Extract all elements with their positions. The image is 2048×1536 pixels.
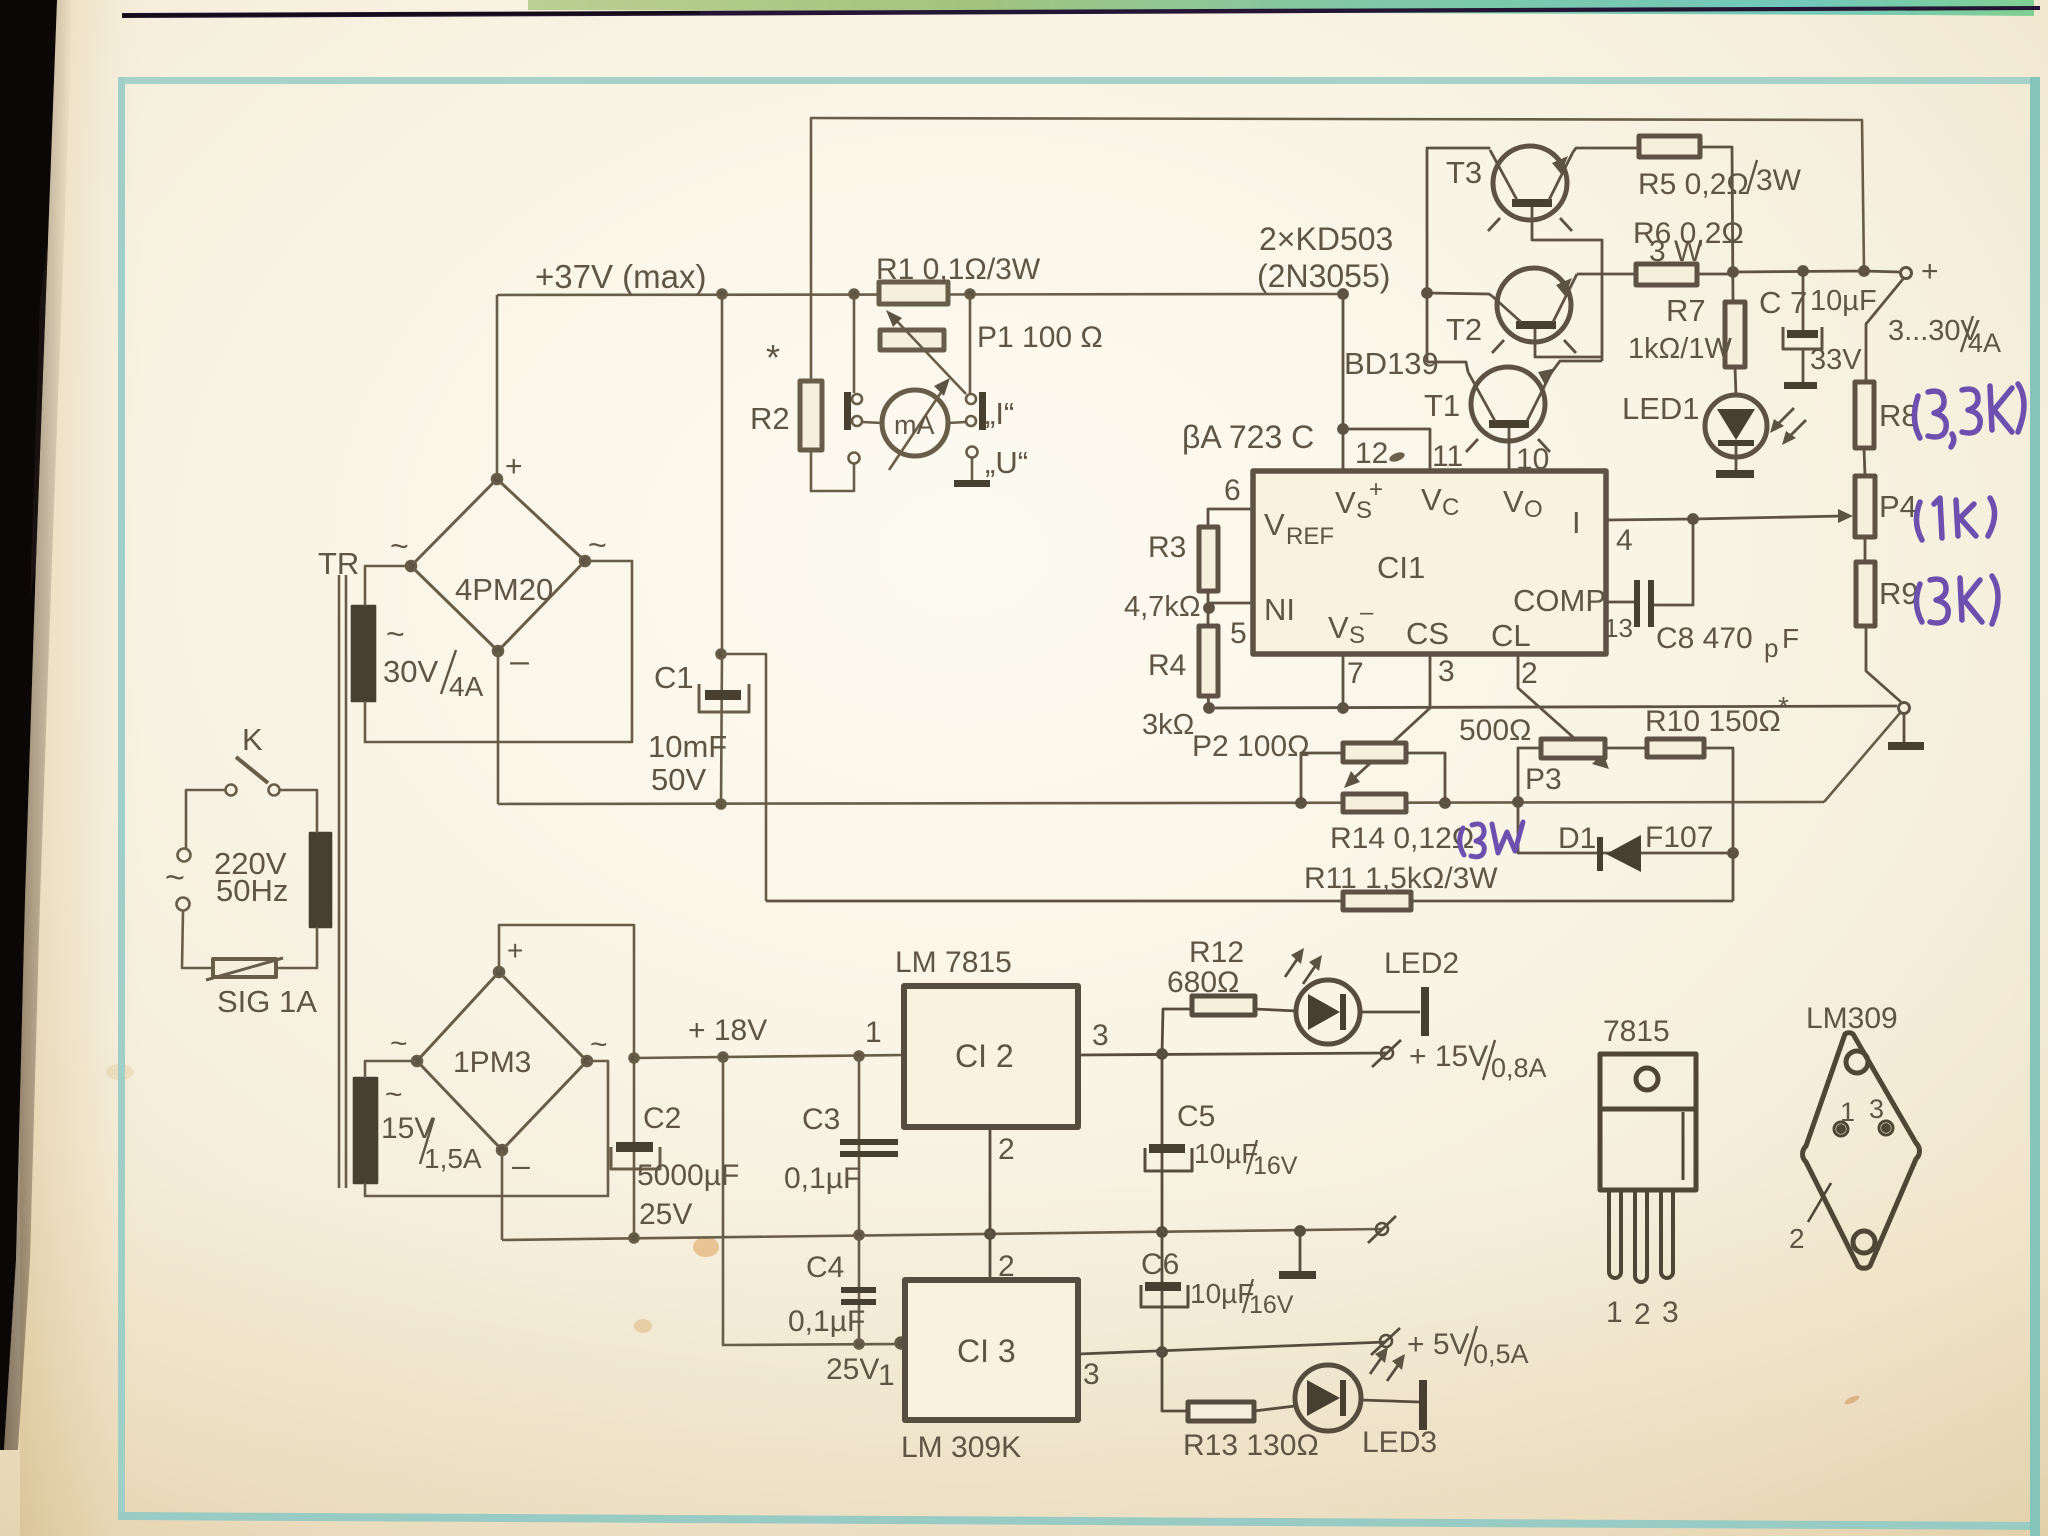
svg-text:P3: P3 (1525, 763, 1562, 796)
wire T3 base (1532, 207, 1602, 361)
svg-text:33V: 33V (1810, 344, 1862, 376)
svg-text:4,7kΩ: 4,7kΩ (1124, 591, 1201, 623)
ground bar output (1888, 742, 1924, 750)
capacitor C6 (1141, 1282, 1188, 1307)
capacitor C7 (1783, 271, 1822, 389)
wire D1 branch (1518, 802, 1733, 853)
svg-text:*: * (1778, 691, 1789, 722)
wire 0V mid rail (502, 1229, 1382, 1240)
wire R12 to LED2 (1255, 1009, 1297, 1011)
svg-text:R14 0,12Ω: R14 0,12Ω (1330, 822, 1474, 855)
wire top box rail (output+ return) (810, 118, 1864, 271)
wire R2 bottom to meter contact (811, 450, 854, 491)
node C1 top (718, 290, 727, 299)
wire lower terminal to fuse (182, 911, 211, 968)
svg-text:F107: F107 (1645, 821, 1713, 854)
transistor T1 (1466, 367, 1556, 452)
mains terminal lower (177, 898, 190, 911)
resistor R4 (1199, 626, 1218, 696)
svg-text:6: 6 (1224, 474, 1241, 507)
contact circle bottom-left U pole (849, 453, 860, 464)
svg-text:2: 2 (1634, 1298, 1651, 1331)
node mid rail bar stub (1296, 1227, 1305, 1236)
node R4 sense rail (1205, 704, 1214, 713)
LED3 (1295, 1365, 1361, 1431)
wire LED3 to bar (1361, 1400, 1419, 1402)
potentiometer P3 (1541, 739, 1605, 758)
wire CI3 output rail (1078, 1342, 1386, 1354)
wire bridge minus down to 0V rail (497, 651, 500, 804)
wire R7 to LED1 (1735, 367, 1736, 396)
capacitor C8 (1634, 580, 1654, 627)
resistor R10 (1647, 739, 1704, 757)
resistor R6 (1636, 264, 1697, 285)
wire pin6 VREF (1208, 509, 1253, 527)
resistor R9 (1856, 562, 1875, 626)
svg-text:3: 3 (1662, 1296, 1679, 1329)
LED1 (1705, 395, 1767, 457)
svg-text:K: K (242, 722, 263, 757)
wire R9 to output minus (1866, 626, 1901, 702)
transformer TR core (339, 575, 346, 1188)
LED3 emission arrows (1370, 1347, 1405, 1381)
transformer secondary winding 30V/4A (352, 606, 375, 701)
svg-text:V: V (1264, 507, 1285, 542)
svg-text:R3: R3 (1148, 531, 1186, 564)
wire bridge left to secondary (365, 566, 411, 606)
svg-text:25V: 25V (826, 1353, 879, 1386)
wire T2 collector (1427, 293, 1492, 296)
package LM309 TO-3 (1803, 1033, 1920, 1269)
wire 0V rail rise to output minus (1824, 713, 1900, 802)
svg-text:R11 1,5kΩ/3W: R11 1,5kΩ/3W (1304, 862, 1498, 895)
wire main 0V rail (498, 802, 1824, 804)
svg-text:~: ~ (590, 1028, 608, 1061)
svg-text:LED3: LED3 (1362, 1426, 1437, 1459)
wire C5 drop (1161, 1054, 1164, 1232)
wire R12 branch (1162, 1009, 1192, 1054)
node +5V C6 R13 (1158, 1348, 1167, 1357)
svg-text:CI 2: CI 2 (955, 1038, 1014, 1074)
wire R8 to P4 (1864, 448, 1865, 476)
svg-text:mA: mA (894, 410, 935, 440)
potentiometer P2 (1343, 743, 1406, 762)
svg-text:R7: R7 (1666, 293, 1706, 328)
P3 wiper arrowhead (1592, 753, 1609, 769)
resistor R7 (1725, 302, 1745, 367)
svg-text:+ 5V: + 5V (1407, 1328, 1470, 1361)
svg-text:+: + (1921, 255, 1939, 288)
wire P3 to R10 (1605, 747, 1647, 750)
wire 1PM3 left to winding (365, 1061, 417, 1078)
wire C6 drop (1161, 1232, 1164, 1352)
svg-text:13: 13 (1604, 613, 1633, 643)
wire R10 right leg (1704, 748, 1733, 901)
LED2 emission arrows (1285, 948, 1322, 984)
node pin4 C8 (1689, 515, 1698, 524)
wire T1 base to pin10 (1508, 428, 1511, 471)
resistor R14 (1343, 794, 1406, 812)
svg-text:SIG 1A: SIG 1A (217, 984, 317, 1019)
node C1 bottom on 0V rail (717, 800, 726, 809)
wire T3 collector (1427, 148, 1490, 362)
svg-text:βA 723 C: βA 723 C (1182, 419, 1314, 455)
resistor R1 (879, 282, 948, 304)
resistor R8 (1855, 382, 1874, 448)
svg-text:LM 309K: LM 309K (901, 1431, 1021, 1464)
svg-text:+: + (1369, 476, 1383, 503)
wire pin13 COMP to C8 (1606, 601, 1634, 604)
svg-text:0,8A: 0,8A (1491, 1053, 1547, 1083)
meter mA (882, 378, 950, 470)
svg-text:P1 100 Ω: P1 100 Ω (977, 321, 1103, 354)
resistor R11 (1343, 892, 1411, 910)
wire R3-R4 (1207, 591, 1210, 626)
wire C1 branch down (721, 294, 722, 804)
svg-text:R12: R12 (1189, 936, 1244, 969)
svg-text:T3: T3 (1446, 155, 1482, 190)
handwritten 3W over R14 (1460, 822, 1523, 857)
svg-text:CL: CL (1491, 618, 1531, 653)
svg-text:+: + (507, 935, 523, 966)
svg-text:16V: 16V (1253, 1152, 1298, 1180)
svg-text:P2 100Ω: P2 100Ω (1192, 730, 1310, 763)
svg-text:LM309: LM309 (1806, 1002, 1898, 1035)
wire CI2 pin2 down (989, 1127, 992, 1280)
svg-text:~: ~ (588, 527, 607, 563)
svg-text:BD139: BD139 (1344, 346, 1439, 381)
svg-text:R1 0,1Ω/3W: R1 0,1Ω/3W (876, 253, 1041, 286)
wire R6 right (1697, 273, 1733, 276)
node R1 right tap (966, 290, 975, 299)
svg-text:1: 1 (1606, 1296, 1623, 1329)
node mid rail C5 C6 (1158, 1228, 1167, 1237)
transformer primary winding 220V (310, 833, 331, 927)
wire output to R8 chain (1866, 279, 1903, 382)
wire P2 left leg (1301, 753, 1343, 803)
P1 wiper arrow (886, 310, 966, 394)
contact circle bottom-right U pole (967, 447, 978, 458)
svg-text:1,5A: 1,5A (424, 1143, 482, 1174)
svg-text:T1: T1 (1424, 388, 1460, 423)
wire winding bottom loop to bridge right (365, 1061, 608, 1196)
svg-text:1: 1 (865, 1016, 882, 1049)
resistor R5 (1639, 136, 1700, 157)
svg-text:R9: R9 (1879, 576, 1919, 611)
wire P3 left leg (1518, 748, 1541, 802)
stray ink dot (1388, 451, 1406, 464)
node C1 junction (717, 650, 726, 659)
svg-text:V: V (1328, 610, 1349, 645)
terminator bar LED2 (1421, 987, 1429, 1036)
wire T1 emitter (1551, 361, 1602, 373)
svg-text:+ 18V: + 18V (688, 1014, 767, 1047)
top black line (122, 6, 2040, 18)
wire pin2 CL to P3 wiper (1518, 654, 1601, 762)
svg-text:~: ~ (385, 1078, 403, 1111)
svg-text:R4: R4 (1148, 649, 1186, 682)
capacitor C1 (699, 684, 749, 712)
resistor R13 (1188, 1402, 1254, 1421)
transformer secondary winding 15V/1.5A (354, 1078, 377, 1183)
svg-text:2: 2 (998, 1250, 1015, 1283)
svg-text:1: 1 (1840, 1097, 1855, 1127)
wire 1PM3 plus riser (499, 925, 634, 1238)
wire R1 left tap down (853, 294, 856, 393)
wire bridge plus up to +37V rail (496, 295, 499, 479)
svg-text:T2: T2 (1446, 312, 1482, 347)
svg-text:10mF: 10mF (648, 729, 727, 764)
svg-text:+: + (505, 450, 523, 483)
wire T2 base (1535, 329, 1602, 357)
capacitor C3 (840, 1139, 898, 1157)
wire junction to R11 feed (721, 654, 766, 901)
capacitor C5 (1145, 1144, 1192, 1171)
node D1 R10 (1729, 849, 1738, 858)
svg-text:11: 11 (1432, 440, 1463, 473)
contact circle upper-left (852, 394, 862, 404)
svg-text:C5: C5 (1177, 1100, 1215, 1133)
node CI3 feed tap (719, 1053, 728, 1062)
wire T3 emitter to R5 (1573, 148, 1639, 152)
contact circle upper-right (966, 394, 976, 404)
svg-text:C6: C6 (1141, 1248, 1179, 1281)
transistor T2 (1492, 268, 1577, 353)
switch contact bar left (844, 392, 851, 430)
wire R1 right tap down (969, 294, 972, 393)
svg-text:4A: 4A (1968, 328, 2001, 358)
svg-text:7815: 7815 (1603, 1015, 1670, 1048)
node C2 bottom (630, 1234, 639, 1243)
svg-text:P4: P4 (1879, 489, 1917, 524)
svg-text:2×KD503: 2×KD503 (1259, 221, 1393, 257)
node +18V C2 (630, 1054, 639, 1063)
wire R13 branch (1162, 1352, 1188, 1411)
svg-text:I: I (1572, 505, 1581, 540)
node emitter rail R7 (1729, 268, 1738, 277)
svg-text:680Ω: 680Ω (1167, 966, 1239, 999)
potentiometer P4 (1855, 476, 1875, 537)
capacitor C2 (611, 1142, 660, 1169)
wire LED1 to chassis bar (1735, 446, 1738, 470)
wire minus terminal stub (1903, 714, 1906, 742)
svg-text:~: ~ (386, 616, 405, 652)
0V terminal (1368, 1216, 1396, 1243)
svg-text:F: F (1782, 623, 1799, 654)
wire pin3 CS to P2 wiper (1352, 654, 1430, 780)
node collectors rail (1423, 289, 1432, 298)
wire secondary bottom loop to bridge right (365, 561, 632, 742)
svg-text:~: ~ (165, 859, 185, 897)
svg-text:NI: NI (1264, 592, 1295, 627)
svg-text:3: 3 (1083, 1358, 1100, 1391)
svg-text:*: * (766, 337, 780, 378)
wire pin7 (1342, 654, 1345, 708)
wire meter left (862, 422, 882, 423)
+5V terminal (1371, 1328, 1400, 1355)
fuse SIG 1A (206, 958, 283, 980)
wire bar stub (1299, 1231, 1302, 1271)
svg-text:1: 1 (878, 1359, 895, 1392)
node C3 top (855, 1052, 864, 1061)
svg-text:LM 7815: LM 7815 (895, 946, 1012, 979)
svg-text:3 W: 3 W (1649, 235, 1703, 268)
node C4 bottom (855, 1340, 864, 1349)
mains terminal upper (178, 849, 191, 862)
svg-text:5: 5 (1230, 617, 1247, 650)
wire P4 to R9 (1864, 537, 1867, 562)
bridge rectifier 1PM3 (412, 967, 592, 1155)
wire C8 riser (1654, 519, 1693, 605)
wire T1 collector (1427, 362, 1468, 372)
node pin7 (1339, 704, 1348, 713)
resistor R12 (1192, 996, 1255, 1015)
svg-text:„U“: „U“ (985, 445, 1028, 480)
svg-text:3kΩ: 3kΩ (1142, 709, 1194, 741)
svg-text:LED1: LED1 (1622, 391, 1700, 426)
LED1 emission arrows (1770, 408, 1806, 445)
IC CI2 LM7815 (904, 986, 1078, 1127)
svg-text:–: – (512, 1147, 530, 1183)
teal frame (118, 77, 2036, 84)
svg-text:C3: C3 (802, 1103, 840, 1136)
svg-text:10µF: 10µF (1810, 285, 1877, 317)
node C7 tap (1799, 267, 1808, 276)
+15V terminal (1372, 1040, 1401, 1067)
svg-text:0,1µF: 0,1µF (784, 1162, 861, 1195)
svg-text:2: 2 (998, 1133, 1015, 1166)
svg-text:CI1: CI1 (1377, 550, 1425, 585)
svg-text:1kΩ/1W: 1kΩ/1W (1628, 333, 1732, 365)
svg-text:12: 12 (1355, 437, 1388, 470)
wire pin12-pin11 tie (1343, 429, 1430, 471)
node P2 right on rail (1441, 799, 1450, 808)
contact circle lower-right (966, 416, 976, 426)
wire LED2 to bar (1360, 1011, 1420, 1014)
handwritten 3,3K (1914, 384, 2024, 447)
resistor R3 (1199, 527, 1218, 591)
node top box corner (1860, 267, 1869, 276)
transistor T3 (1488, 146, 1573, 231)
svg-text:C 7: C 7 (1759, 285, 1807, 320)
svg-text:REF: REF (1286, 523, 1334, 550)
svg-text:5000µF: 5000µF (637, 1159, 739, 1192)
svg-text:10: 10 (1516, 443, 1549, 476)
svg-text:50Hz: 50Hz (216, 873, 288, 908)
svg-text:C1: C1 (654, 660, 694, 695)
handwritten 3K (1916, 576, 1998, 624)
svg-text:R10 150Ω: R10 150Ω (1645, 705, 1781, 738)
chassis bar LED1 (1716, 470, 1754, 478)
svg-text:+37V (max): +37V (max) (535, 258, 706, 295)
output minus terminal (1899, 703, 1910, 714)
svg-text:O: O (1524, 496, 1543, 523)
wire CI3 feed (723, 1057, 900, 1345)
svg-text:0,1µF: 0,1µF (788, 1305, 865, 1338)
svg-text:C: C (1442, 494, 1459, 521)
wire R11 right (1411, 900, 1733, 903)
chassis bar mid rail (1279, 1271, 1316, 1279)
node R1 left tap (850, 290, 859, 299)
svg-text:S: S (1349, 622, 1365, 649)
diode D1 F107 (1597, 835, 1641, 872)
switch K (226, 757, 280, 796)
svg-text:25V: 25V (639, 1198, 692, 1231)
wire R5 right (1700, 147, 1733, 302)
svg-text:R13 130Ω: R13 130Ω (1183, 1429, 1319, 1462)
svg-text:CI 3: CI 3 (957, 1333, 1016, 1369)
wire pin12 to rail (1342, 294, 1345, 471)
svg-text:4A: 4A (449, 671, 484, 702)
svg-text:LED2: LED2 (1384, 947, 1459, 980)
wire R4 bottom to sense rail (1208, 696, 1209, 708)
svg-text:4: 4 (1616, 524, 1633, 557)
svg-text:~: ~ (390, 1027, 408, 1060)
svg-text:C4: C4 (806, 1251, 844, 1284)
svg-text:50V: 50V (651, 762, 706, 797)
svg-text:–: – (510, 642, 529, 680)
wire 1PM3 minus to 0V mid rail (501, 1150, 504, 1240)
svg-text:2: 2 (1521, 657, 1538, 690)
package 7815 TO-220 (1600, 1054, 1696, 1282)
P4 wiper arrow (1693, 509, 1853, 523)
wire switch to mains terminal (186, 790, 225, 848)
top green band (528, 0, 2034, 16)
svg-text:R2: R2 (750, 401, 790, 436)
P2 wiper arrowhead (1344, 771, 1360, 788)
terminator bar LED3 (1419, 1380, 1427, 1430)
wire U pole to chassis bar (971, 458, 974, 480)
handwritten 1k (1916, 498, 1994, 540)
svg-text:(2N3055): (2N3055) (1257, 258, 1390, 294)
svg-text:TR: TR (318, 546, 359, 581)
svg-text:V: V (1421, 482, 1442, 517)
svg-text:2: 2 (1789, 1223, 1805, 1254)
wire C4 drop (858, 1235, 861, 1344)
switch contact bar right (979, 392, 986, 430)
svg-text:D1: D1 (1558, 822, 1596, 855)
svg-text:500Ω: 500Ω (1459, 714, 1531, 747)
resistor R2 (800, 381, 822, 450)
svg-text:7: 7 (1347, 657, 1364, 690)
svg-text:C8 470: C8 470 (1656, 622, 1753, 655)
output plus terminal (1901, 268, 1912, 279)
wire +37V rail (497, 294, 1343, 295)
IC CI3 LM309K (905, 1280, 1078, 1420)
svg-text:C2: C2 (643, 1102, 681, 1135)
node tie (1339, 425, 1348, 434)
wire R13 to LED3 (1254, 1406, 1295, 1411)
bridge rectifier 4PM20 (406, 474, 590, 656)
chassis bar under U pole (954, 480, 990, 487)
wire CI2 output rail (1078, 1053, 1387, 1055)
svg-text:3: 3 (1869, 1094, 1884, 1124)
node CI2 pin2 rail (986, 1230, 995, 1239)
wire meter right (948, 422, 966, 423)
node pin12 rail (1339, 290, 1348, 299)
node +15V C5 R12 (1158, 1050, 1167, 1059)
svg-text:30V: 30V (383, 654, 438, 689)
LED2 (1296, 980, 1360, 1044)
wire switch to primary top (280, 790, 317, 833)
node CI3 pin1 blob (896, 1338, 907, 1349)
svg-text:CS: CS (1406, 616, 1449, 651)
svg-text:„I“: „I“ (985, 396, 1014, 431)
svg-text:1PM3: 1PM3 (453, 1046, 531, 1079)
node C3 C4 rail (855, 1231, 864, 1240)
IC CI1 uA723 (1253, 471, 1606, 654)
svg-text:3...30V: 3...30V (1888, 315, 1981, 347)
